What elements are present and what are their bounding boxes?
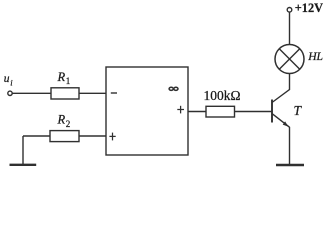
wire emitter to ground — [289, 127, 291, 165]
wire R2 to op-amp non-inverting input — [79, 135, 106, 137]
ground left — [10, 164, 37, 166]
transistor T emitter with arrow — [272, 114, 290, 128]
svg-text:1: 1 — [66, 76, 71, 86]
transistor T base bar — [271, 100, 273, 123]
wire input to R1 — [12, 92, 51, 94]
wire 100k resistor to transistor base — [235, 111, 273, 113]
resistor R2 — [50, 131, 79, 142]
op-amp non-inverting input plus sign — [109, 133, 115, 141]
svg-text:HL: HL — [307, 50, 323, 63]
svg-text:R: R — [57, 113, 66, 127]
svg-text:i: i — [10, 78, 13, 88]
op-amp U1 body — [106, 67, 188, 155]
op-amp infinity gain symbol — [169, 87, 178, 90]
op-amp inverting input minus sign — [111, 92, 117, 94]
label R1 — [57, 70, 71, 86]
svg-text:R: R — [57, 70, 66, 84]
label R2 — [57, 113, 71, 129]
svg-text:u: u — [4, 73, 10, 85]
node ui input terminal — [8, 91, 12, 95]
transistor T collector — [272, 74, 290, 103]
svg-text:100kΩ: 100kΩ — [204, 88, 241, 103]
wire op-amp output to 100k resistor — [188, 111, 206, 113]
wire down to left ground — [22, 136, 24, 165]
ground right — [276, 164, 304, 166]
resistor 100k — [206, 106, 235, 117]
svg-text:T: T — [294, 103, 303, 118]
label u_i — [4, 73, 13, 88]
op-amp output plus sign — [177, 106, 184, 114]
resistor R1 — [51, 88, 79, 99]
svg-text:2: 2 — [66, 119, 71, 129]
lamp HL — [275, 45, 304, 74]
wire lamp to +12V terminal — [289, 12, 291, 44]
svg-text:+12V: +12V — [295, 1, 323, 15]
node +12V terminal — [287, 8, 292, 13]
wire ground to R2 — [23, 135, 50, 137]
wire R1 to op-amp inverting input — [79, 92, 106, 94]
